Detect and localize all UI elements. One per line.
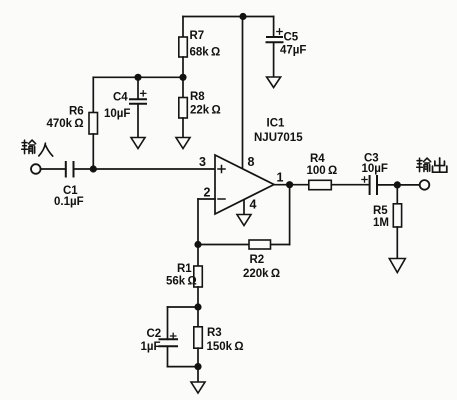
ground bottom <box>191 382 205 393</box>
C4 labels <box>104 92 130 121</box>
resistor R3 <box>194 307 203 367</box>
resistor R6 <box>89 77 98 169</box>
R2 labels <box>243 254 280 280</box>
IC1 labels <box>254 118 303 145</box>
node top rail junction <box>239 13 246 20</box>
capacitor C1 <box>41 162 74 177</box>
node input junction <box>90 165 97 172</box>
svg-text:100 Ω: 100 Ω <box>307 165 338 177</box>
svg-text:150k Ω: 150k Ω <box>207 341 244 353</box>
svg-text:3: 3 <box>199 155 206 169</box>
op-amp IC1 <box>215 155 274 214</box>
wire top supply rail <box>183 16 274 18</box>
capacitor C4 <box>130 77 146 137</box>
resistor R5 <box>393 185 401 259</box>
svg-text:68k Ω: 68k Ω <box>190 47 221 59</box>
node output node <box>394 181 401 188</box>
svg-text:0.1µF: 0.1µF <box>54 196 84 208</box>
ground under R5 <box>389 259 405 273</box>
svg-text:8: 8 <box>248 155 255 169</box>
resistor R1 <box>194 245 203 308</box>
svg-text:10µF: 10µF <box>362 163 388 175</box>
C1 labels <box>54 185 84 208</box>
wire pin 4 drop <box>243 200 245 215</box>
svg-text:R7: R7 <box>190 30 205 42</box>
resistor R4 <box>309 180 332 189</box>
node R1 bottom junction <box>194 303 201 310</box>
wire C3 to output terminal <box>377 184 420 186</box>
svg-text:R2: R2 <box>250 254 265 266</box>
ground under op-amp <box>237 215 251 226</box>
ground under C5 <box>267 77 281 88</box>
C5 labels <box>280 32 306 57</box>
svg-text:R6: R6 <box>69 106 84 118</box>
svg-text:R3: R3 <box>207 327 222 339</box>
svg-text:10µF: 10µF <box>104 108 130 120</box>
wire input line to pin 3 <box>74 168 216 170</box>
node R7-R8 junction <box>179 74 186 81</box>
ground under C4 <box>131 138 145 149</box>
svg-text:C4: C4 <box>113 92 128 104</box>
svg-text:IC1: IC1 <box>267 118 286 130</box>
wire pin 2 stub <box>198 198 215 200</box>
svg-text:56k Ω: 56k Ω <box>166 276 197 288</box>
label 输出 (output) <box>417 158 447 172</box>
wire output feedback drop <box>289 185 291 245</box>
svg-text:220k Ω: 220k Ω <box>243 268 280 280</box>
svg-text:1M: 1M <box>373 217 389 229</box>
svg-text:47µF: 47µF <box>280 45 306 57</box>
svg-text:NJU7015: NJU7015 <box>254 132 303 144</box>
node C4 top <box>134 74 141 81</box>
node output junction <box>286 181 293 188</box>
svg-text:22k Ω: 22k Ω <box>190 105 221 117</box>
resistor R8 <box>179 77 188 137</box>
wire R4 to C3 <box>331 184 369 186</box>
wire feedback line <box>198 244 290 246</box>
resistor R7 <box>179 17 188 78</box>
R8 labels <box>190 91 221 117</box>
svg-text:R1: R1 <box>177 263 192 275</box>
svg-text:C5: C5 <box>284 32 299 44</box>
R4 labels <box>307 153 338 177</box>
label 输入 (input) <box>22 140 53 156</box>
capacitor C3 <box>362 176 377 194</box>
svg-text:2: 2 <box>204 186 211 200</box>
output terminal <box>420 180 430 190</box>
svg-text:R5: R5 <box>373 205 388 217</box>
wire inverting input drop <box>197 199 199 245</box>
capacitor C5 <box>267 17 283 78</box>
svg-text:1: 1 <box>277 171 284 185</box>
ground under R8 <box>176 138 190 149</box>
node R3 bottom junction <box>194 363 201 370</box>
svg-text:470k Ω: 470k Ω <box>47 118 84 130</box>
svg-text:4: 4 <box>250 198 257 212</box>
R1 labels <box>166 263 197 288</box>
R3 labels <box>207 327 244 353</box>
C2 labels <box>141 328 162 353</box>
R6 labels <box>47 106 84 131</box>
svg-text:R8: R8 <box>190 91 205 103</box>
node feedback junction <box>194 241 201 248</box>
R5 labels <box>373 205 389 229</box>
wire mid rail <box>93 76 183 78</box>
svg-text:R4: R4 <box>310 153 325 165</box>
resistor R2 <box>249 240 271 249</box>
wire to bottom ground <box>197 367 199 382</box>
svg-text:C2: C2 <box>147 328 162 340</box>
svg-text:1µF: 1µF <box>141 341 161 353</box>
R7 labels <box>190 30 221 59</box>
C3 labels <box>362 153 388 176</box>
capacitor C2 <box>160 307 199 367</box>
wire pin 8 riser <box>242 17 244 169</box>
input terminal <box>31 164 41 174</box>
wire output <box>274 184 309 186</box>
